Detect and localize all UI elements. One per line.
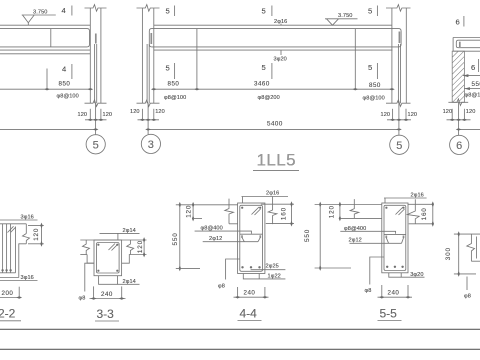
- 5-5 leader 2phi12: [350, 242, 402, 244]
- stirrup zone line right: [354, 29, 356, 90]
- svg-text:φ8@100: φ8@100: [363, 96, 385, 102]
- 5-5 title underline: [378, 320, 402, 322]
- grid5L dim marks: [87, 119, 103, 121]
- grid5R center line: [398, 103, 400, 135]
- svg-text:5: 5: [396, 140, 402, 152]
- svg-text:3460: 3460: [254, 81, 270, 88]
- grid6 dim marks: [449, 119, 467, 121]
- 5-5 phi8 leader: [370, 257, 384, 285]
- 6-6 ext bottom: [454, 273, 476, 275]
- column grid5L right edge: [100, 8, 102, 103]
- 4-4 dim 240 ext right: [264, 287, 266, 299]
- bottom border line 2: [0, 348, 480, 350]
- 3-3 dim 240 ext left: [93, 286, 95, 299]
- 5-5 slab bottom left: [340, 217, 382, 219]
- svg-text:5: 5: [368, 63, 372, 72]
- 5-5 ext top right: [408, 203, 433, 205]
- 5-5 slab bottom right: [409, 223, 433, 225]
- 4-4 bottom dots: [241, 266, 260, 268]
- 4-4 dim 120 marks: [192, 202, 194, 222]
- 5-5 hatch marks: [396, 207, 405, 215]
- 3-3 break right: [127, 240, 134, 255]
- tick 3phi20: [280, 50, 282, 55]
- svg-text:5: 5: [262, 7, 266, 16]
- grid3 center line: [147, 103, 149, 134]
- 3-3 dim 240 ext right: [121, 286, 123, 299]
- 2-2 title underline: [0, 320, 21, 322]
- 5-5 ext top: [315, 204, 382, 206]
- grid6 center line: [458, 102, 460, 135]
- 4-4 dim 120 line: [192, 205, 194, 219]
- column grid3 right edge: [153, 8, 155, 103]
- 4-4 beam box: [238, 203, 265, 274]
- 3-3 title underline: [95, 320, 119, 322]
- 5-5 dim 120 marks: [339, 202, 341, 222]
- grid5R dim marks: [390, 119, 409, 121]
- 3-3 dim 240 marks: [91, 297, 125, 299]
- 5-5 stirrup: [384, 205, 406, 270]
- svg-text:160: 160: [281, 207, 288, 220]
- right beam top: [453, 37, 480, 39]
- svg-text:3: 3: [148, 139, 154, 151]
- svg-text:6: 6: [456, 18, 460, 27]
- 2-2 dim 120 line: [41, 226, 43, 244]
- 5-5 dim 240 ext left: [381, 285, 383, 299]
- 2-2 dim 200 mark: [16, 296, 22, 298]
- extension line 850 left: [46, 69, 48, 90]
- 2-2 dim 120 marks: [40, 223, 42, 247]
- column grid5R bent bars: [398, 44, 400, 103]
- 4-4 ext top right: [261, 203, 294, 205]
- svg-text:φ8@200: φ8@200: [258, 95, 280, 101]
- svg-text:3φ20: 3φ20: [274, 57, 287, 63]
- 2-2 hatch marks: [8, 226, 16, 232]
- masonry wall grid6: [452, 51, 464, 102]
- 6-6 phi8 leader: [466, 277, 468, 291]
- column grid5R bottom tick with break: [386, 100, 411, 107]
- 2-2 right face lower: [25, 241, 27, 244]
- 4-4 phi8 leader: [226, 259, 240, 280]
- 6-6 step: [471, 260, 480, 262]
- 4-4 dim 240 line: [234, 296, 269, 298]
- left beam lower edge line: [0, 53, 90, 55]
- 4-4 break left vertical: [225, 199, 234, 224]
- 3-3 leader bottom: [118, 283, 140, 285]
- left beam hook bar: [95, 34, 97, 44]
- 5-5 leader 3phi20: [389, 273, 425, 277]
- left beam soffit: [0, 49, 90, 51]
- 5-5 top dots: [385, 207, 404, 209]
- 5-5 dim 160 line: [432, 204, 434, 224]
- left beam top line: [0, 24, 90, 26]
- left beam stirrup tick: [50, 29, 52, 47]
- 2-2 stirrup bottom: [0, 272, 16, 274]
- 6-6 ext top: [454, 233, 480, 235]
- 2-2 stirrup right: [15, 227, 17, 273]
- 3-3 slab step left: [87, 255, 94, 264]
- svg-text:850: 850: [168, 81, 180, 88]
- grid3 dim marks: [140, 119, 157, 121]
- 4-4 leader tick: [242, 197, 244, 204]
- column grid3 bottom tick with break: [137, 100, 160, 107]
- 4-4 leader 2phi12: [203, 241, 258, 243]
- level symbol 3.750 left: [22, 15, 56, 25]
- 3-3 phi8 leader: [85, 263, 94, 291]
- leader line 550: [464, 88, 480, 90]
- grid6 120/120 ext b: [463, 109, 465, 121]
- 4-4 dim 550 line: [179, 205, 181, 269]
- column grid5R right edge: [405, 8, 407, 103]
- 5-5 dim 240 ext right: [407, 285, 409, 299]
- grid5R dim line: [387, 119, 411, 121]
- 4-4 slab stub left: [193, 218, 202, 220]
- 4-4 midbar diagonals: [242, 237, 261, 241]
- svg-text:850: 850: [369, 82, 381, 89]
- tick 2phi16: [280, 24, 282, 26]
- svg-text:120: 120: [408, 112, 418, 118]
- dim line 850-3460-850: [154, 88, 392, 90]
- main beam hook left: [150, 33, 152, 44]
- right beam hook: [459, 42, 461, 47]
- svg-text:1φ22: 1φ22: [268, 273, 281, 279]
- svg-text:550: 550: [304, 229, 311, 242]
- svg-text:160: 160: [421, 207, 428, 220]
- column grid3 left edge: [141, 8, 143, 103]
- grid circle 6: [450, 135, 469, 154]
- grid5L 120/120 ext a: [89, 109, 91, 121]
- svg-text:φ8@100: φ8@100: [465, 92, 480, 98]
- 5-5 dim 550 marks: [319, 202, 321, 271]
- 2-2 leader bottom: [0, 280, 38, 282]
- grid circle 3: [141, 134, 160, 153]
- column grid5L left edge: [89, 8, 91, 103]
- svg-text:5400: 5400: [267, 120, 283, 127]
- grid circle 5R: [390, 135, 409, 154]
- grid3 dim line: [138, 119, 160, 121]
- 4-4 dim 160 line: [291, 204, 293, 223]
- 2-2 stirrup verticals: [3, 224, 11, 273]
- column grid3 top tick with break: [137, 5, 160, 12]
- 4-4 slab bottom left: [229, 223, 238, 225]
- 5-5 dim 120 line: [339, 205, 341, 219]
- svg-text:550: 550: [172, 232, 179, 245]
- 2-2 right face upper: [25, 224, 27, 234]
- 4-4 leader 2phi25: [251, 269, 286, 271]
- svg-text:2φ12: 2φ12: [209, 236, 222, 242]
- 5-5 midbar hooks: [386, 236, 403, 239]
- main beam soffit: [154, 49, 393, 51]
- 5-5 beam box: [382, 203, 408, 273]
- 2-2 step: [19, 244, 27, 278]
- 4-4 stirrup: [240, 205, 263, 271]
- svg-text:φ8@400: φ8@400: [201, 226, 223, 232]
- wall bottom tick with break: [448, 99, 468, 106]
- 5480 mark left: [145, 128, 151, 130]
- svg-text:120: 120: [185, 205, 192, 218]
- long dim mark at 5L: [93, 128, 99, 130]
- 3-3 dim 240 line: [90, 298, 126, 300]
- svg-text:φ8@400: φ8@400: [344, 226, 366, 232]
- svg-text:φ8: φ8: [218, 284, 225, 290]
- svg-text:3-3: 3-3: [97, 307, 115, 321]
- 5-5 leader top: [384, 197, 427, 199]
- title 1LL5 underline: [253, 170, 299, 172]
- svg-text:3φ16: 3φ16: [21, 275, 34, 281]
- 4-4 dim 550 marks: [179, 202, 181, 271]
- svg-text:120: 120: [137, 240, 144, 253]
- 2-2 leader top: [0, 219, 38, 221]
- column grid5L bottom tick with break: [85, 100, 107, 107]
- svg-text:2φ16: 2φ16: [266, 191, 279, 197]
- 6-6 dim 300 marks: [458, 231, 460, 277]
- 4-4 dim 240 marks: [235, 296, 268, 298]
- svg-text:φ8: φ8: [79, 296, 86, 302]
- svg-text:5: 5: [166, 7, 170, 16]
- svg-text:240: 240: [388, 290, 400, 297]
- 5-5 midbar top line: [384, 233, 406, 235]
- 2-2 dim 120 ext bottom: [28, 243, 44, 245]
- 5-5 dim 550 line: [319, 205, 321, 269]
- svg-text:300: 300: [445, 247, 452, 260]
- 3-3 leader tick: [117, 233, 119, 240]
- 4-4 ext top: [176, 204, 238, 206]
- 4-4 leader phi8@400: [195, 231, 252, 234]
- 3-3 dim 120 line right: [143, 240, 145, 255]
- stirrup zone line left: [196, 29, 198, 90]
- svg-text:240: 240: [244, 290, 256, 297]
- 3-3 leader top: [100, 232, 140, 234]
- 2-2 dim 120 ext top: [28, 225, 44, 227]
- 4-4 dim 160 marks: [290, 201, 292, 226]
- svg-text:120: 120: [33, 228, 40, 241]
- 5-5 midbar diagonals: [386, 238, 403, 244]
- right beam soffit: [453, 50, 480, 52]
- svg-text:120: 120: [103, 112, 113, 118]
- 6-6 dim 300 line: [458, 234, 460, 274]
- svg-text:3.750: 3.750: [338, 13, 353, 19]
- 3-3 beam box: [94, 240, 122, 276]
- svg-text:2φ12: 2φ12: [349, 238, 362, 244]
- svg-text:120: 120: [381, 112, 391, 118]
- grid6 dim line: [447, 119, 471, 121]
- 4-4 slab bottom right: [266, 223, 294, 225]
- svg-text:φ8@100: φ8@100: [57, 94, 79, 100]
- 4-4 break right vertical: [268, 197, 277, 225]
- grid5R 120/120 ext b: [405, 109, 407, 121]
- dim mark right segment: [456, 128, 462, 130]
- 3-3 hatch marks: [109, 244, 118, 251]
- 3-3 slab top: [80, 239, 146, 241]
- level symbol 3.750 right: [325, 19, 358, 25]
- 4-4 leader 1phi22: [243, 274, 285, 279]
- leader arrow head a: [463, 74, 469, 77]
- 5-5 bottom dots: [386, 266, 404, 268]
- grid3 120/120 ext a: [141, 109, 143, 121]
- dim 5480 line: [148, 128, 399, 130]
- dim line right segment: [459, 128, 480, 130]
- svg-text:550: 550: [472, 81, 480, 88]
- 4-4 leader top: [242, 196, 289, 198]
- grid5L dim line 120120: [85, 119, 107, 121]
- main beam hook right: [398, 32, 400, 44]
- 5-5 leader tick: [384, 198, 386, 203]
- grid circle 5L: [86, 135, 105, 154]
- 4-4 midbar top line: [240, 233, 263, 235]
- dim marks left850: [44, 88, 93, 90]
- 4-4 hatch marks: [252, 207, 261, 215]
- 2-2 dim 200 ext: [18, 287, 20, 299]
- svg-text:6: 6: [456, 140, 462, 152]
- svg-text:φ8: φ8: [365, 288, 372, 294]
- svg-text:200: 200: [2, 290, 14, 297]
- svg-text:2-2: 2-2: [0, 307, 16, 321]
- 2-2 rebar dots bottom: [1, 269, 11, 271]
- svg-text:6: 6: [471, 63, 475, 72]
- 5-5 dim 160 marks: [432, 201, 434, 226]
- leader arrow head b: [464, 87, 470, 90]
- svg-text:4: 4: [62, 65, 66, 74]
- svg-text:φ8: φ8: [464, 294, 471, 300]
- right beam left face: [452, 38, 454, 52]
- left beam rebar cage: [0, 29, 90, 47]
- 3-3 bottom bar stub: [99, 276, 118, 285]
- svg-text:120: 120: [443, 109, 453, 115]
- 5-5 break right vertical: [407, 199, 419, 224]
- 5-5 break left vertical: [350, 199, 359, 218]
- bottom border line 1: [0, 328, 480, 330]
- svg-text:120: 120: [466, 109, 476, 115]
- svg-text:1LL5: 1LL5: [257, 151, 296, 170]
- 5-5 ext bottom: [315, 267, 351, 269]
- 3-3 stirrup: [97, 243, 120, 274]
- grid3 120/120 ext b: [153, 109, 155, 121]
- dim marks main: [151, 88, 395, 90]
- 5-5 dim 240 line: [378, 296, 413, 298]
- 3-3 break left: [83, 240, 90, 255]
- 2-2 dim 200 line: [0, 297, 21, 299]
- 3-3 slab bottom right inner: [122, 255, 147, 264]
- svg-text:4-4: 4-4: [240, 307, 258, 321]
- column grid3 bent bars: [147, 44, 149, 103]
- 4-4 midbar hooks: [242, 235, 260, 238]
- svg-text:5: 5: [93, 139, 99, 151]
- svg-text:5: 5: [166, 64, 170, 73]
- 2-2 break on right face: [23, 234, 30, 241]
- column grid5L bent bars: [95, 44, 97, 103]
- 3-3 slab bottom left outer: [80, 254, 87, 256]
- svg-text:φ8@100: φ8@100: [164, 95, 186, 101]
- long dim line left segment: [0, 128, 96, 130]
- svg-text:120: 120: [130, 109, 140, 115]
- svg-text:120: 120: [155, 109, 165, 115]
- 5480 mark right: [396, 128, 402, 130]
- column grid5R top tick with break: [386, 5, 411, 12]
- 4-4 top dots: [241, 207, 261, 209]
- leader arrow top right: [463, 75, 480, 77]
- right beam cage: [456, 40, 480, 48]
- 4-4 dim 240 ext left: [237, 287, 239, 299]
- svg-text:2φ25: 2φ25: [266, 264, 279, 270]
- svg-text:4: 4: [62, 6, 66, 15]
- svg-text:5-5: 5-5: [380, 307, 398, 321]
- dim line 850 left: [0, 88, 90, 90]
- main beam rebar cage: [149, 29, 401, 47]
- svg-text:850: 850: [59, 81, 71, 88]
- 6-6 left face with break: [467, 234, 475, 261]
- 3-3 dim 120 marks: [143, 237, 145, 257]
- 2-2 bottom edge: [0, 277, 19, 279]
- grid5L center line: [95, 103, 97, 134]
- column grid5L top tick with break: [85, 5, 107, 12]
- grid5R 120/120 ext a: [392, 109, 394, 121]
- svg-text:5: 5: [262, 63, 266, 72]
- svg-text:5: 5: [368, 7, 372, 16]
- grid5L 120/120 ext b: [100, 109, 102, 121]
- 4-4 title underline: [238, 320, 262, 322]
- grid6 120/120 ext a: [451, 109, 453, 121]
- 5-5 dim 240 marks: [379, 296, 411, 298]
- 4-4 ext bottom: [176, 267, 200, 269]
- svg-text:120: 120: [329, 205, 336, 218]
- svg-text:120: 120: [78, 112, 88, 118]
- 2-2 top edge: [0, 223, 26, 225]
- 3-3 corner dots: [97, 244, 118, 272]
- main beam top line: [154, 24, 392, 26]
- svg-text:3.750: 3.750: [33, 10, 48, 16]
- column grid5R left edge: [391, 8, 393, 103]
- svg-text:240: 240: [101, 291, 113, 298]
- 6-6 inner vertical: [476, 237, 478, 259]
- 5-5 leader phi8@400: [340, 231, 395, 234]
